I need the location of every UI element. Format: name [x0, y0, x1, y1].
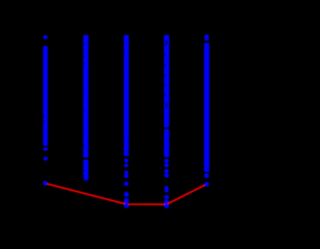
- column 3 dot f: [124, 192, 129, 197]
- red minimum line: [45, 183, 206, 204]
- column 4 dot h: [164, 200, 168, 204]
- column 3 dot e: [124, 181, 129, 186]
- column 1 dash: [43, 147, 47, 150]
- column 3 dot b: [124, 163, 128, 167]
- column 3 dot a: [124, 159, 128, 163]
- column 2 left-edge notches: [83, 37, 84, 146]
- column 5 bottom dot: [204, 182, 209, 187]
- column 1 top dot: [43, 35, 47, 39]
- column 3 dot g: [124, 198, 129, 203]
- column 3 dot d: [124, 174, 128, 178]
- column 1 edge notches: [43, 116, 45, 123]
- column 5 main bar: [204, 43, 209, 172]
- column 2 bar upper: [83, 35, 88, 158]
- column 4 dot c: [164, 169, 169, 174]
- column 3 edge notches: [124, 53, 129, 151]
- column 4 dot g: [164, 195, 169, 200]
- column 4 dot d: [164, 173, 169, 178]
- column 3 main bar: [124, 35, 129, 156]
- column 1 main bar: [43, 46, 48, 146]
- column 2 lower notches: [83, 164, 84, 179]
- column 4 bar gap ticks: [164, 40, 167, 107]
- column 4 dot e: [165, 186, 169, 190]
- column 4 bar upper: [164, 35, 169, 127]
- column 2 bar lower: [83, 160, 88, 181]
- column 1 dot a: [43, 156, 47, 160]
- column 5 dot a: [204, 173, 209, 178]
- column 4 bottom dot: [164, 204, 169, 209]
- column 4 bar lower: [164, 129, 169, 157]
- column 1 bottom dot: [43, 181, 48, 186]
- column 3 bottom dot: [124, 203, 129, 208]
- column 3 dot c: [124, 170, 128, 174]
- column 4 dot a: [164, 159, 169, 164]
- column 5 top dot pair: [205, 34, 209, 38]
- column 4 dot b: [164, 163, 169, 168]
- column 4 dot f: [165, 189, 169, 193]
